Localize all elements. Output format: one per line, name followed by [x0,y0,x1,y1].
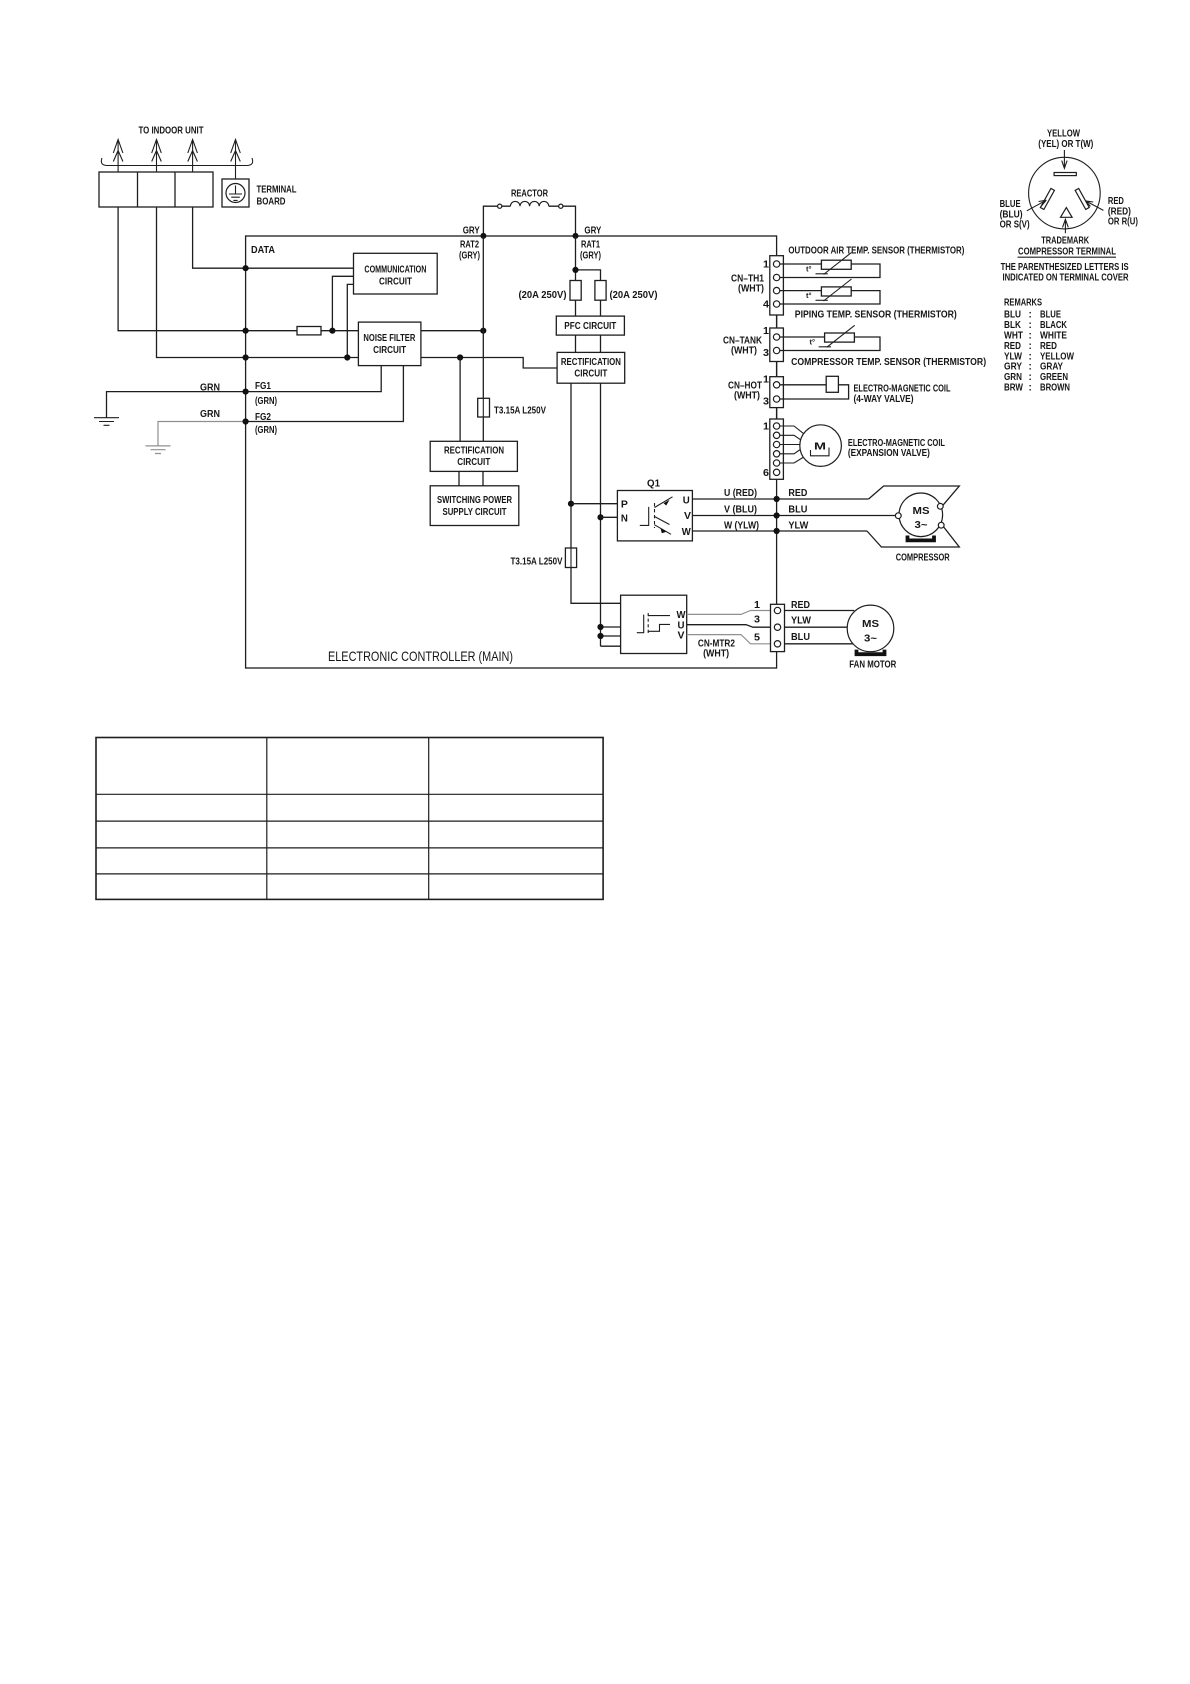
arrow to indoor unit 1 [113,140,123,173]
motor MS 3~ compressor [895,493,944,540]
resistor on line2 [297,327,321,335]
svg-text:YLW: YLW [1004,351,1022,362]
thermistor piping body [806,279,852,301]
thermistor piping loop [780,291,880,304]
arrow to indoor unit 4 (earth) [231,140,241,180]
svg-text:(WHT): (WHT) [703,649,729,660]
rectification circuit box 2 [430,441,517,471]
svg-text:(4-WAY VALVE): (4-WAY VALVE) [854,394,914,405]
thermistor outdoor air body [806,253,852,275]
svg-text:FAN MOTOR: FAN MOTOR [849,660,897,671]
wire terminal3 DATA line [193,207,354,268]
wire V (BLU) [692,515,895,517]
svg-text:OUTDOOR AIR TEMP. SENSOR (THER: OUTDOOR AIR TEMP. SENSOR (THERMISTOR) [788,246,964,257]
arrow to indoor unit 3 [188,140,198,173]
transistor module fan driver [621,595,687,653]
wire V to CN-MTR2 pin5 [687,635,771,644]
wire N to Q1 [601,516,618,518]
svg-text:RED: RED [791,600,810,611]
wires N rail into transistor box [601,627,621,636]
svg-text:GRY: GRY [463,226,480,237]
svg-text::: : [1029,320,1032,331]
svg-text:t°: t° [810,338,816,347]
svg-text:(EXPANSION VALVE): (EXPANSION VALVE) [848,448,930,459]
wire fuse to rectification2 [482,417,484,441]
arrow yellow terminal [1062,150,1067,168]
wires fuses to PFC [576,300,601,316]
ground FG2 [146,446,171,454]
terminal S slot [1040,188,1054,209]
svg-text:REMARKS: REMARKS [1004,298,1042,309]
svg-text:YLW: YLW [791,616,812,627]
svg-text:FG1: FG1 [255,381,271,392]
connector CN-MTR2 [771,604,785,651]
svg-text:GRN: GRN [200,383,220,394]
svg-text:T3.15A L250V: T3.15A L250V [494,406,546,417]
node dots N rail [597,624,603,630]
noise filter circuit box [358,322,421,366]
svg-text:COMPRESSOR TEMP. SENSOR (THERM: COMPRESSOR TEMP. SENSOR (THERMISTOR) [791,357,986,368]
svg-text:COMPRESSOR: COMPRESSOR [896,553,951,564]
wire fan BLU [785,643,854,645]
node dots left edge [243,265,249,271]
svg-text:4: 4 [763,300,769,311]
svg-text:W: W [677,610,687,621]
svg-text:ELECTRO-MAGNETIC COIL: ELECTRO-MAGNETIC COIL [848,438,945,449]
svg-text:U (RED): U (RED) [724,488,757,499]
node dot P [568,501,574,507]
remarks legend [1004,298,1074,394]
wires PFC to rectification1 [576,335,601,352]
electro-magnetic coil expansion valve motor [800,425,842,467]
PFC circuit box [556,316,624,335]
svg-text:CIRCUIT: CIRCUIT [373,345,406,356]
svg-text::: : [1029,341,1032,352]
wire comm stub 2 [347,284,353,357]
svg-text:BLU: BLU [1004,310,1021,321]
svg-text:MS: MS [913,506,930,517]
svg-text:YELLOW: YELLOW [1040,351,1074,362]
connector CN-HOT [770,377,784,408]
wire terminal2 to noise filter line3 [157,207,359,358]
terminal R slot [1075,188,1089,209]
wire N rail [601,383,621,646]
node dot RAT1 [573,233,579,239]
svg-text:RED: RED [1040,341,1057,352]
svg-text:U: U [683,495,690,506]
svg-text:NOISE FILTER: NOISE FILTER [363,333,416,344]
svg-text:3~: 3~ [915,520,928,531]
wire RAT2 vertical to fuse T3.15A [482,236,484,398]
svg-text:GRY: GRY [584,226,601,237]
communication circuit box [354,253,438,294]
svg-text:3: 3 [763,397,769,408]
svg-text:BLU: BLU [791,632,810,643]
wire CN-HOT to CN-EV [776,408,778,419]
wire noise filter to RAT2 vertical [421,330,483,332]
svg-text:W (YLW): W (YLW) [724,521,759,532]
switching power supply circuit box [430,486,519,526]
svg-text:(GRN): (GRN) [255,396,277,407]
wires expansion valve coil [780,426,805,463]
arrow to indoor unit 2 [152,140,162,173]
svg-text:BLUE: BLUE [1040,310,1061,321]
svg-text:REACTOR: REACTOR [511,189,549,200]
svg-text:SWITCHING POWER: SWITCHING POWER [437,495,513,506]
transistor Q1 (IGBT module) [617,479,692,541]
svg-text:BLACK: BLACK [1040,320,1068,331]
svg-text:BLUE: BLUE [1000,199,1021,210]
svg-text::: : [1029,372,1032,383]
svg-text:6: 6 [763,468,769,479]
node dot N [597,514,603,520]
wire fan RED [785,610,855,612]
wire W to CN-MTR2 pin1 [687,611,771,615]
wires rectification2 to switching power supply [459,471,483,485]
svg-text:COMPRESSOR TERMINAL: COMPRESSOR TERMINAL [1018,246,1116,257]
wire CN-TH1 to CN-TANK [776,315,778,328]
svg-text:ELECTRO-MAGNETIC COIL: ELECTRO-MAGNETIC COIL [854,383,951,394]
svg-text:P: P [621,500,628,511]
compressor cable outline top [869,486,960,505]
compressor cable outline bottom [867,527,959,547]
wire FG1 [107,366,382,418]
svg-text:t°: t° [806,291,812,300]
svg-text::: : [1029,362,1032,373]
svg-text:M: M [814,442,826,453]
connector CN-TANK [770,328,784,362]
wire CN-TANK to CN-HOT [776,362,778,377]
svg-text:RAT2: RAT2 [460,240,479,251]
fuse 20A 250V right [595,281,606,301]
svg-text:(20A 250V): (20A 250V) [519,290,567,301]
compressor terminal diagram [1000,129,1138,284]
svg-text:BLU: BLU [788,505,807,516]
connector expansion valve [770,419,784,479]
svg-text:V (BLU): V (BLU) [724,505,757,516]
node dot RAT2 line2 [480,328,486,334]
svg-text:ELECTRONIC CONTROLLER (MAIN): ELECTRONIC CONTROLLER (MAIN) [328,648,513,664]
svg-text:THE PARENTHESIZED LETTERS IS: THE PARENTHESIZED LETTERS IS [1001,262,1129,273]
svg-text:1: 1 [763,326,769,337]
connector CN-TH1 [770,256,784,315]
cable loop [101,158,252,166]
svg-text:V: V [678,631,685,642]
node dot RAT1 branch [572,267,578,273]
svg-text:PIPING TEMP. SENSOR (THERMISTO: PIPING TEMP. SENSOR (THERMISTOR) [795,310,957,321]
svg-text::: : [1029,383,1032,394]
fuse T3.15A L250V upper [478,398,490,417]
wire U to CN-MTR2 pin3 [687,625,771,628]
svg-text:BLK: BLK [1004,320,1022,331]
svg-text:3: 3 [754,615,760,626]
wire fan YLW [785,626,848,628]
svg-text:MS: MS [862,619,879,630]
svg-text:WHT: WHT [1004,331,1023,342]
wire U (RED) [692,498,868,500]
svg-text:COMMUNICATION: COMMUNICATION [364,265,426,276]
svg-text:YLW: YLW [788,521,809,532]
svg-text:TO INDOOR UNIT: TO INDOOR UNIT [139,126,204,137]
wire comm stub 1 [332,276,353,330]
wire terminal1 to noise filter line [118,207,297,331]
svg-text::: : [1029,310,1032,321]
wire resistor to noise filter [321,330,358,332]
arrow blue terminal [1027,200,1047,211]
thermistor compressor body [810,325,855,347]
svg-text:CIRCUIT: CIRCUIT [457,457,490,468]
wire fuse2 to transistor box [571,568,621,604]
svg-text:1: 1 [763,375,769,386]
arrow red terminal [1086,201,1104,211]
svg-text:PFC CIRCUIT: PFC CIRCUIT [564,321,616,332]
svg-text:RECTIFICATION: RECTIFICATION [444,445,504,456]
trademark triangle [1061,208,1073,218]
svg-text:GREEN: GREEN [1040,372,1068,383]
svg-text:RAT1: RAT1 [581,240,600,251]
svg-text:BOARD: BOARD [257,197,286,208]
parts table [96,738,603,900]
wire FG2 [246,366,404,422]
earth terminal box [222,179,249,207]
svg-text:(WHT): (WHT) [734,391,760,402]
svg-text:3: 3 [763,348,769,359]
node dot RAT2 [480,233,486,239]
svg-text:(YEL) OR T(W): (YEL) OR T(W) [1038,139,1093,150]
thermistor outdoor air loop [780,264,880,278]
4-way valve coil wires [780,385,849,399]
terminal cover circle [1029,157,1101,229]
svg-text:GRN: GRN [1004,372,1022,383]
wire P to Q1 [571,503,617,505]
svg-text:WHITE: WHITE [1040,331,1067,342]
svg-text:5: 5 [754,632,760,643]
svg-text:BRW: BRW [1004,383,1023,394]
svg-text:V: V [684,511,691,522]
rectification circuit box 1 [557,352,625,383]
svg-text:GRAY: GRAY [1040,362,1063,373]
svg-text:FG2: FG2 [255,412,271,423]
terminal T slot [1054,173,1076,176]
svg-text:RED: RED [788,488,807,499]
svg-text:CIRCUIT: CIRCUIT [379,277,412,288]
svg-text:GRY: GRY [1004,362,1022,373]
svg-text:DATA: DATA [251,245,275,256]
node dots U V W on controller edge [774,496,780,502]
svg-text:N: N [621,514,628,525]
svg-text:RED: RED [1108,196,1124,207]
svg-text:T3.15A L250V: T3.15A L250V [511,557,563,568]
svg-text:CIRCUIT: CIRCUIT [574,368,607,379]
svg-text:(GRY): (GRY) [459,251,480,262]
reactor [483,189,575,236]
svg-text:RED: RED [1004,341,1021,352]
svg-text:Q1: Q1 [647,479,660,490]
svg-text:OR R(U): OR R(U) [1108,217,1138,228]
arrow trademark [1063,219,1069,233]
svg-text::: : [1029,351,1032,362]
svg-text:TERMINAL: TERMINAL [257,185,297,196]
fuse T3.15A L250V lower [565,548,576,568]
electronic controller main box [246,236,777,668]
wire RAT1 branch [576,236,601,281]
svg-text:(20A 250V): (20A 250V) [610,290,658,301]
svg-text:SUPPLY CIRCUIT: SUPPLY CIRCUIT [443,507,507,518]
svg-text:(GRY): (GRY) [580,251,601,262]
wire line3 branch down to rectification2 [459,358,461,442]
svg-text:(GRN): (GRN) [255,425,277,436]
svg-text:t°: t° [806,265,812,274]
node dot line3 branch [457,354,463,360]
motor MS 3~ fan [847,605,894,654]
wire W (YLW) [692,530,867,532]
svg-text:3~: 3~ [864,634,877,645]
svg-text:INDICATED ON TERMINAL COVER: INDICATED ON TERMINAL COVER [1003,273,1130,284]
fuse 20A 250V left [570,281,581,301]
svg-text:(WHT): (WHT) [731,346,757,357]
node dots comm stubs [329,328,335,334]
wire P rail [570,383,572,548]
svg-text:1: 1 [754,600,760,611]
svg-text:GRN: GRN [200,409,220,420]
thermistor compressor loop [780,337,880,351]
terminal board [99,172,213,207]
svg-text:W: W [682,527,692,538]
svg-text:RECTIFICATION: RECTIFICATION [561,357,621,368]
svg-text:TRADEMARK: TRADEMARK [1041,236,1090,247]
svg-text:1: 1 [763,260,769,271]
svg-text::: : [1029,331,1032,342]
wire noise filter line3 to rectification [421,358,557,369]
svg-text:OR S(V): OR S(V) [1000,220,1030,231]
4-way valve coil body [826,376,838,392]
ground FG1 [94,418,119,426]
svg-text:YELLOW: YELLOW [1047,129,1080,140]
svg-text:BROWN: BROWN [1040,383,1070,394]
svg-text:1: 1 [763,422,769,433]
svg-text:(WHT): (WHT) [738,284,764,295]
